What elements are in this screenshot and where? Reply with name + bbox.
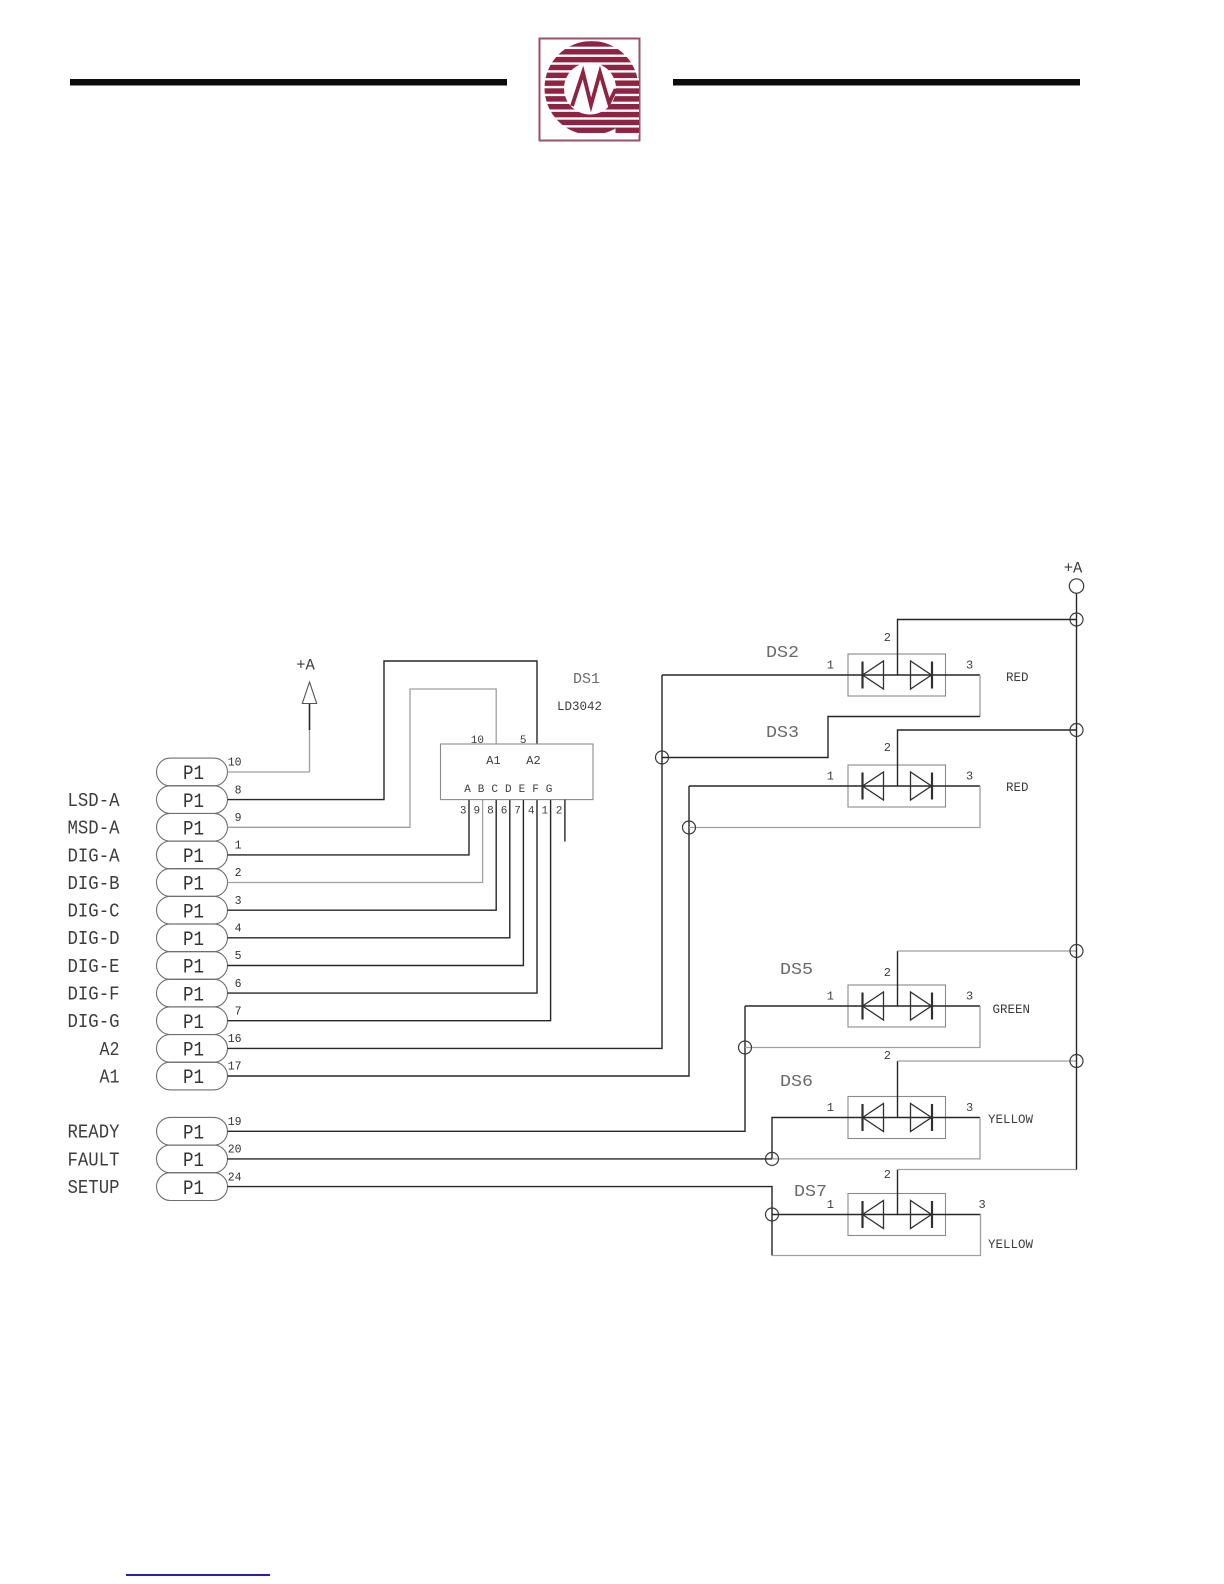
junction node DS2 cathode [656,751,669,764]
footer link rule [126,1574,270,1576]
wire DS6 pin 3 loop [946,1117,981,1119]
svg-text:5: 5 [235,950,242,963]
LED DS5 body [848,985,946,1027]
LED DS6 left diode [861,1104,863,1131]
connector P1 pin 3 [157,895,242,925]
wire DS5 pin 1 [745,1005,848,1007]
svg-text:A2: A2 [526,754,540,768]
wire DS7 pin 1 [772,1214,848,1216]
svg-text:RED: RED [1006,781,1029,795]
svg-text:2: 2 [884,631,891,645]
wire DS3 pin 3 loop [946,785,981,787]
svg-text:G: G [546,784,553,796]
wire P1-9 (MSD-A) to DS1 pin 10 [228,689,497,827]
svg-text:P1: P1 [183,1123,204,1146]
svg-text:RED: RED [1006,671,1029,685]
wire DIG-E to DS1 pin [228,800,524,966]
svg-text:DIG-G: DIG-G [68,1011,120,1033]
wire FAULT to DS6 cathode node [228,1158,773,1160]
connector P1 pin 5 [157,950,242,980]
junction node DS6 cathode [766,1152,779,1165]
svg-text:P1: P1 [183,984,204,1007]
wire A1 to DS3 cathode node [228,786,690,1076]
wire DIG-F to DS1 pin [228,800,538,994]
connector P1 pin 2 [157,867,242,897]
svg-text:3: 3 [966,990,973,1004]
connector P1 pin 8 [157,784,242,814]
svg-text:1: 1 [827,1101,834,1115]
wire SETUP to DS7 cathode node [228,1187,773,1256]
svg-text:DIG-A: DIG-A [68,845,121,867]
svg-text:1: 1 [827,770,834,784]
display driver DS1 LD3042 [441,671,603,818]
LED DS6 right diode [911,1104,932,1132]
top rule right [673,79,1080,86]
svg-text:DS3: DS3 [766,724,799,743]
LED DS3 body [848,765,946,807]
wire DS5 pin 3 loop [946,1005,981,1007]
wire DIG-A to DS1 pin [228,800,470,855]
svg-text:DIG-D: DIG-D [68,928,120,950]
LED DS7 pin 2 riser [897,1194,899,1215]
svg-text:2: 2 [556,806,563,818]
svg-text:6: 6 [501,806,508,818]
LED DS2 left diode [861,662,863,689]
svg-text:17: 17 [228,1061,242,1074]
connector P1 pin 10 [157,757,242,787]
svg-text:P1: P1 [183,1040,204,1063]
junction bus junction DS5 [1070,945,1083,958]
LED DS3 right diode [911,772,932,800]
+A bus vertical [1076,593,1078,1169]
svg-text:3: 3 [235,895,242,908]
svg-text:7: 7 [235,1005,242,1018]
connector P1 pin 24 [157,1171,242,1201]
svg-text:DIG-B: DIG-B [68,873,120,895]
svg-text:DIG-C: DIG-C [68,901,120,923]
svg-text:1: 1 [827,990,834,1004]
connector P1 pin 7 [157,1005,242,1035]
wire DS6 pin 1 [772,1118,848,1159]
svg-text:24: 24 [228,1171,242,1184]
svg-text:DS7: DS7 [794,1183,827,1202]
svg-text:DS2: DS2 [766,644,799,663]
svg-text:DS6: DS6 [780,1073,813,1092]
svg-text:19: 19 [228,1116,242,1129]
svg-text:READY: READY [68,1122,121,1144]
svg-text:P1: P1 [183,763,204,786]
svg-text:LSD-A: LSD-A [68,790,121,812]
junction bus junction DS3 [1070,724,1083,737]
svg-text:F: F [532,784,539,796]
svg-text:FAULT: FAULT [68,1149,120,1171]
junction bus junction DS6 [1070,1055,1083,1068]
connector P1 pin 20 [157,1144,242,1174]
svg-text:1: 1 [827,1198,834,1212]
svg-text:9: 9 [473,806,480,818]
svg-text:P1: P1 [183,846,204,869]
wire DIG-D to DS1 pin [228,800,510,938]
svg-text:16: 16 [228,1033,242,1046]
svg-text:P1: P1 [183,957,204,980]
svg-text:2: 2 [884,741,891,755]
svg-text:D: D [505,784,512,796]
svg-text:P1: P1 [183,791,204,814]
svg-text:1: 1 [827,659,834,673]
svg-text:1: 1 [541,806,548,818]
svg-text:A1: A1 [100,1066,120,1088]
svg-text:P1: P1 [183,819,204,842]
connector P1 pin 17 [157,1061,242,1091]
svg-text:MSD-A: MSD-A [68,818,121,840]
svg-text:20: 20 [228,1144,242,1157]
svg-text:P1: P1 [183,929,204,952]
wire DS3 pin 1 [689,785,848,787]
svg-text:P1: P1 [183,901,204,924]
wire DIG-C to DS1 pin [228,800,497,911]
LED DS2 body [848,654,946,696]
LED DS5 pin 2 riser [897,985,899,1006]
svg-text:6: 6 [235,978,242,991]
svg-text:GREEN: GREEN [993,1003,1031,1017]
power +A terminal (top right) [1064,560,1084,594]
connector P1 pin 4 [157,923,242,953]
svg-text:DIG-F: DIG-F [68,984,120,1006]
svg-text:DS1: DS1 [573,671,600,688]
svg-text:5: 5 [520,735,527,747]
svg-text:P1: P1 [183,1012,204,1035]
svg-text:10: 10 [471,735,484,747]
LED DS5 right diode [911,992,932,1020]
svg-text:LD3042: LD3042 [557,700,602,714]
svg-text:E: E [519,784,526,796]
top rule left [70,79,507,86]
svg-text:3: 3 [966,1101,973,1115]
svg-text:1: 1 [235,840,242,853]
wire DS2 pin 2 to +A bus [898,620,1077,655]
svg-text:B: B [478,784,485,796]
LED DS7 body [848,1194,946,1236]
wire DS6 pin 2 to +A bus [897,1061,899,1097]
svg-text:2: 2 [884,1168,891,1182]
wire DS3 pin 2 to +A bus [898,730,1077,765]
svg-text:3: 3 [966,659,973,673]
svg-text:YELLOW: YELLOW [988,1113,1034,1127]
svg-text:3: 3 [460,806,467,818]
company logo (striped a with waveform) [540,39,640,141]
svg-text:9: 9 [235,812,242,825]
wire P1-8 (LSD-A) to DS1 pin 5 [228,661,538,800]
connector P1 pin 19 [157,1116,242,1146]
wire DIG-G to DS1 pin [228,800,551,1021]
svg-text:+A: +A [1064,560,1083,578]
connector P1 pin 16 [157,1033,242,1063]
LED DS7 left diode [861,1201,863,1228]
svg-text:DS5: DS5 [780,961,813,980]
svg-text:P1: P1 [183,874,204,897]
LED DS2 right diode [911,661,932,689]
wire DS7 pin 3 loop [946,1214,981,1216]
svg-text:4: 4 [235,923,242,936]
svg-text:C: C [491,784,498,796]
junction bus junction DS2 [1070,613,1083,626]
LED DS6 body [848,1097,946,1139]
svg-text:2: 2 [884,966,891,980]
svg-text:8: 8 [487,806,494,818]
svg-text:A: A [464,784,471,796]
svg-text:4: 4 [528,806,535,818]
power +A symbol (left) [296,657,317,731]
svg-text:8: 8 [235,784,242,797]
junction node DS5 cathode [739,1041,752,1054]
wire READY to DS5 cathode node [228,1006,746,1131]
svg-text:P1: P1 [183,1067,204,1090]
svg-text:7: 7 [514,806,521,818]
connector P1 pin 9 [157,812,242,842]
svg-text:2: 2 [884,1049,891,1063]
connector P1 pin 6 [157,978,242,1008]
svg-text:+A: +A [296,657,315,675]
wire DS2 pin 1 [662,674,848,676]
svg-text:2: 2 [235,867,242,880]
wire DS2 pin 3 loop [946,674,981,676]
svg-text:P1: P1 [183,1150,204,1173]
wire DIG-B to DS1 pin [228,800,483,883]
connector P1 pin 1 [157,840,242,870]
wire DS7 pin 2 to +A bus [897,1170,899,1194]
wire A2 to DS2 cathode node [228,675,663,1048]
svg-text:10: 10 [228,757,242,770]
DS1 unused pin 2 stub [564,800,566,842]
svg-text:SETUP: SETUP [68,1177,120,1199]
junction node DS7 cathode [766,1208,779,1221]
wire P1-10 to +A [228,771,310,773]
LED DS6 pin 2 riser [897,1097,899,1118]
svg-text:P1: P1 [183,1178,204,1201]
svg-text:A1: A1 [486,754,500,768]
LED DS5 left diode [861,993,863,1020]
svg-text:DIG-E: DIG-E [68,956,120,978]
LED DS3 pin 2 riser [897,765,899,786]
LED DS3 left diode [861,773,863,800]
LED DS2 pin 2 riser [897,654,899,675]
svg-text:A2: A2 [100,1039,120,1061]
svg-text:YELLOW: YELLOW [988,1238,1034,1252]
LED DS7 right diode [911,1201,932,1229]
wire DS5 pin 2 to +A bus [897,951,899,985]
svg-text:3: 3 [966,770,973,784]
svg-text:3: 3 [979,1198,986,1212]
junction node DS3 cathode [683,821,696,834]
